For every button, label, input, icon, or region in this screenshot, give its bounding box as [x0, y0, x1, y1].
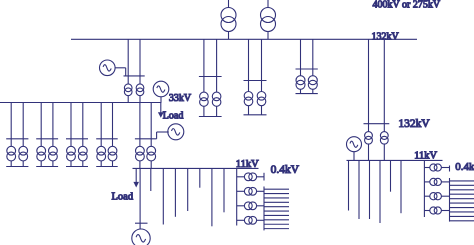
svg-text:0.4kV: 0.4kV — [271, 164, 300, 176]
svg-text:Load: Load — [112, 192, 134, 203]
svg-text:Load: Load — [163, 111, 184, 122]
svg-text:132kV: 132kV — [398, 118, 430, 130]
svg-text:132kV: 132kV — [372, 32, 400, 43]
svg-text:0.4kV: 0.4kV — [455, 161, 474, 173]
svg-text:11kV: 11kV — [414, 151, 437, 162]
svg-text:33kV: 33kV — [169, 93, 192, 104]
svg-text:11kV: 11kV — [236, 159, 259, 170]
svg-text:400kV or 275kV: 400kV or 275kV — [373, 0, 441, 11]
